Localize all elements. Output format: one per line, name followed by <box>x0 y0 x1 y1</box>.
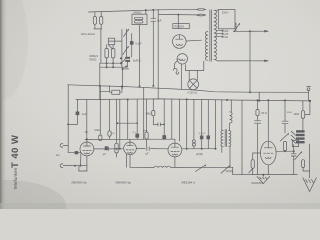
wire Tr2 primary bottom <box>221 146 223 152</box>
capacitor C16 column <box>201 100 203 136</box>
wire anode row left <box>136 148 145 150</box>
svg-text:Telefunken: Telefunken <box>13 167 18 190</box>
svg-text:10V+12mA: 10V+12mA <box>81 32 95 36</box>
node bus1 dots <box>99 85 101 87</box>
wire winding bottom drop <box>203 61 205 71</box>
transformer Tr2 core <box>224 130 226 147</box>
tap lead 110 <box>216 36 222 38</box>
tube V2 envelope <box>124 142 137 155</box>
switch arrow R14 <box>249 169 253 173</box>
node left v dot <box>67 123 69 125</box>
tube V2 anode <box>127 145 133 147</box>
capacitor C10 plates <box>105 146 108 150</box>
wire V3 cathode pin <box>174 157 176 167</box>
svg-text:5µF(1): 5µF(1) <box>133 60 141 63</box>
svg-text:10⁴: 10⁴ <box>85 130 89 134</box>
wire bus link z2 <box>109 86 111 92</box>
wire V4 cathode <box>267 165 269 175</box>
tube V2 filament <box>128 151 133 154</box>
capacitor C14 column <box>163 99 165 135</box>
wire V1 feed from bus <box>86 100 88 140</box>
wire mains feed <box>159 13 196 16</box>
capacitor C5 <box>130 41 134 45</box>
wire R4 bottom <box>112 58 114 67</box>
tube V5 rectifier envelope <box>173 35 187 49</box>
tube V1 grid <box>83 149 85 151</box>
capacitor C7 plates <box>151 18 156 20</box>
resistor R11 column grid leak <box>146 99 148 132</box>
wire mains upper <box>234 30 268 32</box>
resistor R8 column <box>109 100 111 131</box>
resistor R4 <box>111 48 115 58</box>
svg-text:µF: µF <box>145 153 148 156</box>
capacitor C9 <box>76 112 80 116</box>
svg-text:DRM21: DRM21 <box>134 12 143 15</box>
svg-text:0,1 0,1: 0,1 0,1 <box>199 133 206 135</box>
wire R16 to speaker <box>302 118 304 130</box>
resistor R12 column <box>152 99 154 111</box>
label box RGN354 <box>173 24 190 29</box>
margin title Telefunken T 40 W <box>10 134 21 190</box>
choke L2 column <box>230 100 232 112</box>
wire Tr2 primary top <box>221 100 223 130</box>
wire main HT bus <box>76 99 311 101</box>
capacitor C11 column <box>136 100 138 134</box>
wire C8 to V1 <box>78 152 81 154</box>
wire bus2 drop x77 <box>76 100 78 112</box>
capacitor C13 plates <box>157 123 159 126</box>
tube V6 envelope <box>177 54 187 64</box>
svg-text:RGN354: RGN354 <box>174 25 184 28</box>
wire Tr2 secondary bottom <box>229 146 231 167</box>
wire R16 link <box>305 114 310 116</box>
wire mesh h2 <box>100 66 127 68</box>
tap lead 220 <box>216 30 222 32</box>
svg-text:µF(W): µF(W) <box>226 170 233 173</box>
svg-text:1MΩ: 1MΩ <box>143 130 148 132</box>
node C6 dots <box>125 66 127 68</box>
wire long v x158 <box>157 9 159 99</box>
wire V2 feed <box>127 100 129 140</box>
node cathode dot <box>74 165 76 167</box>
tube V4 anode <box>264 147 272 149</box>
wire mains lower end arrow <box>264 60 269 63</box>
svg-text:2MΩ: 2MΩ <box>146 112 151 115</box>
wire V6 bottom lead <box>181 64 183 89</box>
terminal antenna hook <box>60 144 63 148</box>
terminal jack top <box>307 85 311 87</box>
wire right column top <box>309 101 311 115</box>
wire fuse right <box>120 87 122 93</box>
resistor R10 column <box>143 88 145 140</box>
transformer Tr1 core <box>209 10 211 61</box>
wire x242 drop <box>241 100 243 175</box>
node avc dot <box>117 122 119 124</box>
resistor R17 <box>302 160 305 168</box>
tube V1 envelope <box>80 142 94 156</box>
wire R15 bottom <box>284 150 286 153</box>
svg-text:µF: µF <box>103 153 106 156</box>
tube V5 filament <box>176 44 182 45</box>
wire grid rail upper <box>85 138 175 140</box>
svg-text:µF(W): µF(W) <box>196 153 203 156</box>
wire cathode rail B left <box>130 166 154 168</box>
box DRM21 <box>132 14 147 24</box>
svg-text:200Ω: 200Ω <box>294 114 300 116</box>
transformer Tr2 primary <box>221 130 223 146</box>
wire comb x186.7 <box>186 99 188 148</box>
wire mesh h1 <box>100 62 122 64</box>
wire V1 top lead <box>86 139 88 142</box>
ground E1 <box>262 175 264 177</box>
lamp La cross <box>190 80 198 88</box>
wire col x122.5 low <box>122 67 124 88</box>
wire left long vertical <box>67 85 69 145</box>
transformer Tr2 secondary <box>229 130 231 146</box>
tap lead 125 <box>216 33 222 35</box>
tube V1 anode <box>83 145 90 147</box>
transformer Tr1 primary winding <box>214 10 217 59</box>
wire cathode U bottom <box>79 170 87 172</box>
wire R3 top stub <box>106 45 108 49</box>
wire fuse left <box>110 91 112 93</box>
capacitor C6 block <box>125 57 130 59</box>
speaker Ls cone hatch <box>291 131 296 135</box>
tube V1 filament <box>84 153 89 154</box>
wire col x121.9 <box>121 30 123 68</box>
node V1 top dot <box>86 138 88 140</box>
resistor R5 <box>135 17 143 19</box>
switch S3 arrow <box>121 58 126 64</box>
wire R3 bottom <box>106 58 108 67</box>
resistor R9 column <box>116 100 118 144</box>
terminal earth hook <box>60 164 63 168</box>
capacitor C21 <box>293 151 295 153</box>
node mesh dots <box>106 62 108 64</box>
switch arrow rail B <box>196 165 206 172</box>
wire V6 left lead <box>175 61 178 69</box>
wire mesh v left <box>99 63 101 99</box>
resistor R2 <box>100 17 103 25</box>
tube V3 anode <box>171 146 178 148</box>
wire speaker top feed <box>302 101 304 111</box>
wire V2 top stub <box>129 139 131 142</box>
tube V3 filament <box>172 154 177 155</box>
wire speaker drop <box>293 145 295 152</box>
speaker Ls winding bars <box>296 130 305 132</box>
svg-text:REN904 3g: REN904 3g <box>116 181 131 185</box>
wire comb x171.8 <box>171 99 173 139</box>
wire R14 bottom <box>252 168 254 174</box>
tube V3 grid <box>171 151 173 153</box>
coil L spiral <box>173 68 178 74</box>
wire Tr1 primary bottom <box>216 60 219 61</box>
fuse box Si <box>112 90 120 94</box>
node rail dots topleft <box>145 9 147 11</box>
svg-text:V 235 (L): V 235 (L) <box>187 92 197 95</box>
resistor R14 grid <box>251 160 254 169</box>
switch S2 arrow <box>123 46 129 54</box>
svg-text:RGN354: RGN354 <box>252 181 264 185</box>
wire C6 bottom <box>127 62 129 67</box>
wire cathode rail B right <box>171 166 233 168</box>
wire R1 R2 join <box>94 28 102 30</box>
wire R2 stub <box>100 24 102 29</box>
wire R17 link <box>303 168 310 172</box>
svg-text:1µF: 1µF <box>82 112 87 116</box>
switch arrow tone <box>280 134 288 141</box>
wire V4 feed <box>267 100 269 141</box>
wire V1 grid pin <box>80 154 82 166</box>
wire bus link z1 <box>100 91 110 93</box>
capacitor C17 column <box>207 100 209 136</box>
capacitor C12 coupling plates <box>146 147 148 151</box>
wire antenna lead <box>63 144 68 146</box>
switch S1 arrow <box>124 29 129 36</box>
wire right column low <box>309 144 311 178</box>
svg-text:10kΩ: 10kΩ <box>94 129 100 132</box>
wire column x119.8 <box>119 100 121 149</box>
plug prong upper <box>197 9 206 11</box>
wire C7 column <box>152 10 154 19</box>
wire V1 cathode pin <box>86 156 88 171</box>
wire C5 top <box>131 34 133 42</box>
svg-text:0,1µF: 0,1µF <box>135 43 142 46</box>
svg-text:5000: 5000 <box>287 112 293 114</box>
wire mains lower <box>218 60 268 62</box>
wire mains vertical link <box>249 31 251 92</box>
svg-text:5600: 5600 <box>177 59 183 61</box>
switch voltage selector arrow <box>234 23 239 31</box>
wire C5 bottom <box>131 45 133 57</box>
voltage plate box <box>218 10 235 29</box>
wire V4 grid lead <box>253 153 261 160</box>
wire comb x179.6 <box>179 99 181 141</box>
wire heater to bus drop <box>258 92 260 100</box>
tube V4 grid <box>264 152 266 154</box>
trimmer C15 column <box>193 99 195 139</box>
capacitor C18 plates <box>254 120 261 122</box>
resistor R15 <box>283 141 286 150</box>
resistor R2 lead <box>100 12 102 17</box>
svg-text:220V~: 220V~ <box>222 11 230 14</box>
capacitor box C4 <box>108 38 114 45</box>
wire col x126.4 <box>125 29 127 57</box>
wire V5 anode lead right <box>186 39 201 42</box>
wire C4 top rail <box>108 40 122 42</box>
capacitor C8 grid <box>75 151 79 154</box>
wire R4 top stub <box>112 45 114 49</box>
lamp La dial envelope <box>188 79 199 90</box>
ground E2 <box>303 178 316 192</box>
svg-text:Anl: Anl <box>56 154 60 157</box>
transformer Tr1 heater winding <box>205 32 207 61</box>
wire lamp right drop <box>196 71 198 81</box>
wire Tr1 top tap <box>216 9 219 12</box>
wire anode row mid <box>151 148 168 150</box>
svg-text:REN904 3a: REN904 3a <box>72 181 87 185</box>
svg-text:50⁴Ω: 50⁴Ω <box>261 111 267 115</box>
wire anode row right <box>182 148 216 150</box>
wire C13 link <box>153 123 158 125</box>
wire mesh h3 <box>123 68 129 70</box>
node V5 feed dot <box>177 14 179 16</box>
wire heater bridge <box>186 70 204 72</box>
wire mains upper end arrow <box>264 30 269 33</box>
wire C4 diagonal <box>108 45 112 49</box>
wire R13 bottom <box>257 123 259 175</box>
wire earth lead <box>63 165 87 167</box>
tube V3 envelope <box>168 143 182 157</box>
switch arrow rail C left <box>221 166 230 173</box>
wire C9 bottom L <box>68 115 77 124</box>
resistor R16 <box>301 111 304 119</box>
svg-text:T 40 W: T 40 W <box>10 134 21 168</box>
wire ground rail C <box>233 174 297 176</box>
resistor R1 <box>93 17 96 25</box>
wire heater bus <box>68 85 309 93</box>
resistor R1 lead <box>94 12 96 17</box>
tube V2 grid <box>126 149 128 151</box>
svg-text:110: 110 <box>224 36 228 39</box>
wire avc h <box>117 122 137 124</box>
node earth junction dot <box>80 165 82 167</box>
wire top HT rail <box>89 9 197 12</box>
wire DRM feed <box>145 10 147 14</box>
node bus right dot <box>309 100 311 102</box>
tube V4 filament <box>265 157 271 158</box>
wire antenna down jog <box>68 145 74 152</box>
capacitor C19 column <box>284 100 286 121</box>
wire V2 cathode pin <box>129 155 131 168</box>
resistor R7 <box>99 86 101 135</box>
svg-text:1µF: 1µF <box>157 18 162 22</box>
wire C10 out <box>108 148 124 150</box>
wire DRM down <box>139 25 141 88</box>
wire V5 top lead <box>177 15 179 29</box>
tube V5 anode <box>176 38 183 40</box>
wire V2 left pin <box>125 154 127 168</box>
wire V1 anode out <box>94 148 106 150</box>
svg-text:RES164 d: RES164 d <box>182 181 196 185</box>
wire comb x215.5 <box>215 100 217 149</box>
tube V4 output envelope <box>261 141 277 165</box>
resistor R3 <box>105 48 109 58</box>
svg-text:RW22: RW22 <box>90 58 98 61</box>
box C20 <box>292 140 298 146</box>
switch arrow hum <box>295 152 302 160</box>
wire R1 stub <box>94 24 96 29</box>
node heater mains dot <box>249 91 251 93</box>
resistor R6 <box>135 21 143 23</box>
wire selector to mains <box>235 23 237 31</box>
resistor R13 column <box>257 100 259 109</box>
wire lamp left drop <box>188 71 190 80</box>
node R9 dot <box>116 148 118 150</box>
tube V6 filament <box>180 59 185 60</box>
wire node K down <box>100 29 102 63</box>
heater hump wavy <box>154 166 171 167</box>
wire railB end drop <box>232 167 234 174</box>
plug prong lower <box>197 14 206 16</box>
wire V3 top stub <box>174 139 176 143</box>
wire V4 anode out <box>276 150 294 152</box>
wire V6 right heater link <box>185 65 187 71</box>
